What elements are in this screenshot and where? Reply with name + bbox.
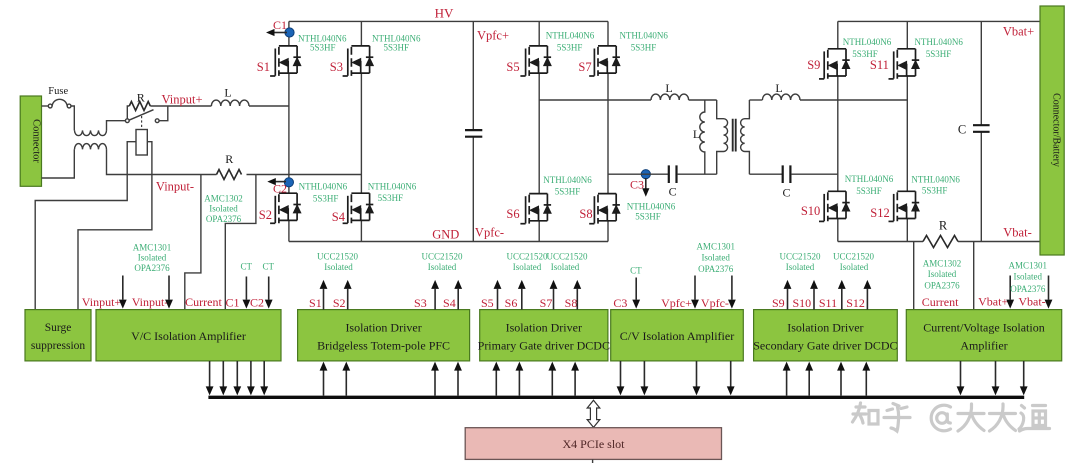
wire DCDC primary top (S5/S6 mid to transformer) <box>539 99 651 101</box>
svg-text:Fuse: Fuse <box>48 86 68 97</box>
wire S10 gate drive arrow <box>813 289 815 310</box>
wire S4 gate drive arrow <box>457 289 459 310</box>
svg-text:OPA2376: OPA2376 <box>134 263 170 273</box>
svg-text:S4: S4 <box>332 210 346 224</box>
capacitor C output (battery side) <box>980 21 982 241</box>
svg-text:Current/Voltage Isolation: Current/Voltage Isolation <box>923 321 1044 335</box>
svg-text:Isolated: Isolated <box>701 253 730 263</box>
svg-text:OPA2376: OPA2376 <box>206 214 242 224</box>
wire fuse to choke <box>71 106 74 130</box>
wire S6 gate drive arrow <box>521 289 523 310</box>
svg-text:5S3HF: 5S3HF <box>856 186 882 196</box>
inductor common-mode choke bottom winding <box>75 144 107 150</box>
svg-text:AMC1302: AMC1302 <box>204 194 243 204</box>
svg-text:NTHL040N6: NTHL040N6 <box>627 202 676 212</box>
svg-text:S3: S3 <box>330 60 343 74</box>
wire Vinput+ arrow into amplifier <box>122 276 124 300</box>
svg-text:S2: S2 <box>259 208 272 222</box>
svg-text:suppression: suppression <box>31 340 86 352</box>
svg-text:Isolated: Isolated <box>786 262 815 272</box>
svg-text:C: C <box>782 186 790 200</box>
wire GND rail <box>289 241 608 243</box>
svg-text:5S3HF: 5S3HF <box>635 212 661 222</box>
wire battery amplifier to bus arrows <box>961 361 1024 387</box>
svg-text:S1: S1 <box>257 60 270 74</box>
svg-text:Isolated: Isolated <box>840 262 869 272</box>
svg-text:R: R <box>137 91 145 105</box>
wire Vinput+ line <box>150 105 211 107</box>
wire S5/S6 leg midpoint <box>538 73 540 194</box>
transistor S10 <box>819 191 850 221</box>
svg-text:5S3HF: 5S3HF <box>922 185 948 195</box>
svg-text:Isolated: Isolated <box>513 262 542 272</box>
wire S1 drain <box>288 21 290 46</box>
svg-text:C2: C2 <box>250 296 264 310</box>
inductor common-mode choke top winding <box>75 130 107 135</box>
svg-text:C: C <box>958 123 966 137</box>
wire Vinput- arrow into amplifier <box>168 276 170 300</box>
relay coil K1 <box>141 116 143 130</box>
wire Vbat- bottom rail right part <box>958 241 1040 243</box>
svg-text:Vbat-: Vbat- <box>1018 295 1045 309</box>
wire S11 gate drive arrow <box>841 289 843 310</box>
svg-text:CT: CT <box>630 266 642 276</box>
svg-text:C: C <box>669 185 677 199</box>
wire choke to Vinput- line <box>107 149 217 174</box>
svg-text:UCC21520: UCC21520 <box>506 252 548 262</box>
svg-text:5S3HF: 5S3HF <box>313 193 339 203</box>
wire S2 source <box>288 220 290 241</box>
svg-text:UCC21520: UCC21520 <box>421 252 463 262</box>
svg-text:5S3HF: 5S3HF <box>384 43 410 53</box>
wire connector low terminal to choke <box>42 149 75 178</box>
svg-text:AMC1301: AMC1301 <box>696 242 735 252</box>
svg-text:5S3HF: 5S3HF <box>310 43 336 53</box>
wire S3 drain <box>360 21 362 46</box>
wire PCIe stub <box>592 459 594 463</box>
capacitor DC-link (Vpfc) <box>472 21 474 241</box>
transistor S4 <box>343 193 374 223</box>
svg-text:AMC1301: AMC1301 <box>133 243 172 253</box>
svg-text:Bridgeless Totem-pole PFC: Bridgeless Totem-pole PFC <box>317 339 450 353</box>
svg-text:CT: CT <box>263 262 275 272</box>
wire Vinput- to S3/S4 midpoint <box>247 174 362 176</box>
svg-text:NTHL040N6: NTHL040N6 <box>843 37 892 47</box>
svg-text:S11: S11 <box>819 296 837 310</box>
svg-text:NTHL040N6: NTHL040N6 <box>619 30 668 40</box>
wire S1 gate drive arrow <box>323 289 325 310</box>
svg-text:S2: S2 <box>333 296 346 310</box>
transistor S11 <box>889 49 920 79</box>
svg-text:Vbat+: Vbat+ <box>978 295 1008 309</box>
wire S12 source <box>906 219 908 242</box>
svg-text:Vpfc-: Vpfc- <box>701 296 729 310</box>
transistor S6 <box>520 194 551 224</box>
svg-text:Connector: Connector <box>31 119 42 163</box>
svg-text:Vinput+: Vinput+ <box>161 93 202 107</box>
node C1 current sense dot <box>285 28 294 37</box>
wire S5 drain <box>538 21 540 46</box>
connector Battery (green box) <box>1040 6 1064 255</box>
wire L to S1/S2 midpoint <box>249 105 289 107</box>
wire S11 drain <box>906 21 908 48</box>
transformer T1 core <box>733 119 736 152</box>
node C2 current sense dot <box>284 178 293 187</box>
wire S11/S12 leg midpoint <box>906 76 908 191</box>
wire S3/S4 leg midpoint <box>360 73 362 193</box>
wire HV rail <box>289 20 608 22</box>
svg-text:Isolated: Isolated <box>324 262 353 272</box>
svg-text:S9: S9 <box>772 296 785 310</box>
wire battery current sense to amplifier <box>913 242 915 310</box>
capacitor C resonant primary <box>669 165 677 183</box>
svg-text:Isolated: Isolated <box>209 204 238 214</box>
wire relay coil drive left <box>35 142 136 310</box>
svg-text:Isolation Driver: Isolation Driver <box>506 321 582 335</box>
svg-text:S6: S6 <box>505 296 518 310</box>
svg-text:S6: S6 <box>506 207 519 221</box>
svg-text:L: L <box>775 81 782 95</box>
svg-text:NTHL040N6: NTHL040N6 <box>845 174 894 184</box>
wire from connector to fuse <box>42 105 49 107</box>
svg-text:Vbat-: Vbat- <box>1003 226 1031 240</box>
transistor S8 <box>589 194 620 224</box>
wire S9 gate drive arrow <box>787 289 789 310</box>
svg-text:S7: S7 <box>540 296 553 310</box>
fuse F1 <box>48 104 52 108</box>
switch relay contact <box>125 119 129 123</box>
wire S10 source <box>837 219 839 242</box>
block Current/Voltage Isolation Amplifier <box>906 310 1061 361</box>
svg-text:OPA2376: OPA2376 <box>924 281 960 291</box>
wire V/C amplifier to bus arrows <box>210 361 265 387</box>
svg-text:AMC1301: AMC1301 <box>1009 261 1048 271</box>
wire S5 gate drive arrow <box>497 289 499 310</box>
wire bus to PFC driver arrows <box>324 371 459 396</box>
wire S9/S10 leg midpoint <box>837 76 839 191</box>
wire S7 gate drive arrow <box>553 289 555 310</box>
wire S6 source <box>538 221 540 242</box>
wire C/V amplifier to bus arrows <box>621 361 731 387</box>
svg-text:Vinput+: Vinput+ <box>82 295 122 309</box>
svg-text:Isolation Driver: Isolation Driver <box>345 321 421 335</box>
svg-text:Current: Current <box>185 295 222 309</box>
svg-text:S7: S7 <box>578 60 591 74</box>
block Isolation Driver Secondary Gate driver DCDC <box>754 310 898 361</box>
wire Vpfc- arrow into amplifier <box>731 276 733 300</box>
svg-text:L: L <box>224 86 231 100</box>
wire CT1 arrow into amplifier <box>245 277 247 300</box>
svg-text:NTHL040N6: NTHL040N6 <box>911 175 960 185</box>
svg-text:UCC21520: UCC21520 <box>779 252 821 262</box>
resistor R input sense <box>217 170 242 180</box>
svg-text:Current: Current <box>922 295 959 309</box>
svg-text:OPA2376: OPA2376 <box>698 264 734 274</box>
svg-text:5S3HF: 5S3HF <box>926 49 952 59</box>
svg-text:R: R <box>225 152 233 166</box>
svg-text:S9: S9 <box>807 58 820 72</box>
svg-text:C1: C1 <box>273 18 287 32</box>
svg-text:Connector/Battery: Connector/Battery <box>1051 93 1062 167</box>
transistor S2 <box>270 193 301 223</box>
svg-text:5S3HF: 5S3HF <box>555 187 581 197</box>
svg-text:Vpfc-: Vpfc- <box>475 226 504 240</box>
svg-text:S10: S10 <box>801 204 820 218</box>
inductor L resonant primary <box>651 94 689 100</box>
svg-text:V/C Isolation Amplifier: V/C Isolation Amplifier <box>131 329 246 343</box>
transformer T1 secondary winding <box>741 100 750 174</box>
svg-text:5S3HF: 5S3HF <box>631 43 657 53</box>
wire choke to relay contact <box>107 121 126 131</box>
block V/C Isolation Amplifier <box>96 310 281 361</box>
wire battery voltage sense to amplifier <box>973 242 975 310</box>
inductor L magnetizing <box>700 100 705 174</box>
svg-text:R: R <box>939 219 948 233</box>
svg-text:S12: S12 <box>846 296 865 310</box>
transistor S3 <box>343 46 374 76</box>
wire S12 gate drive arrow <box>866 289 868 310</box>
wire Vbat- arrow into amplifier <box>1048 276 1050 300</box>
svg-text:X4 PCIe slot: X4 PCIe slot <box>562 437 625 451</box>
node C3 current sense dot <box>641 170 650 179</box>
wire bus to primary driver arrows <box>496 371 575 396</box>
svg-text:S5: S5 <box>481 296 494 310</box>
svg-text:Isolated: Isolated <box>928 269 957 279</box>
wire Vpfc+ arrow into amplifier <box>694 276 696 300</box>
svg-text:CT: CT <box>240 262 252 272</box>
capacitor C resonant secondary <box>783 165 791 183</box>
wire S3 gate drive arrow <box>434 289 436 310</box>
wire C3 arrow into amplifier <box>635 278 637 300</box>
block X4 PCIe slot <box>465 428 721 460</box>
wire CT2 arrow into amplifier <box>268 277 270 300</box>
svg-text:NTHL040N6: NTHL040N6 <box>546 30 595 40</box>
svg-text:S4: S4 <box>443 296 456 310</box>
transformer T1 primary winding <box>717 100 728 174</box>
wire Vbat- bottom rail left part <box>838 241 923 243</box>
svg-text:Surge: Surge <box>45 322 72 334</box>
transistor S1 <box>270 46 301 76</box>
svg-text:AMC1302: AMC1302 <box>923 259 962 269</box>
wire L to S11/S12 midpoint <box>800 99 907 101</box>
svg-text:Primary Gate driver DCDC: Primary Gate driver DCDC <box>478 339 610 353</box>
svg-text:UCC21520: UCC21520 <box>317 252 359 262</box>
svg-text:Vinput-: Vinput- <box>156 180 194 194</box>
inductor L PFC boost <box>211 100 249 106</box>
svg-text:UCC21520: UCC21520 <box>546 252 588 262</box>
transistor S12 <box>889 191 920 221</box>
svg-text:S1: S1 <box>309 296 322 310</box>
svg-text:5S3HF: 5S3HF <box>557 43 583 53</box>
block Isolation Driver Bridgeless Totem-pole PFC <box>298 310 470 361</box>
wire S7/S8 leg midpoint <box>607 73 609 194</box>
svg-text:NTHL040N6: NTHL040N6 <box>299 182 348 192</box>
svg-text:Isolated: Isolated <box>1014 272 1043 282</box>
svg-text:Secondary Gate driver DCDC: Secondary Gate driver DCDC <box>753 339 897 353</box>
block Surge suppression <box>25 310 91 361</box>
svg-text:NTHL040N6: NTHL040N6 <box>914 37 963 47</box>
wire S8 gate drive arrow <box>576 289 578 310</box>
svg-text:HV: HV <box>435 6 454 21</box>
svg-text:C/V Isolation Amplifier: C/V Isolation Amplifier <box>620 329 734 343</box>
svg-text:NTHL040N6: NTHL040N6 <box>368 181 417 191</box>
svg-text:S5: S5 <box>506 60 519 74</box>
svg-text:L: L <box>665 81 672 95</box>
svg-text:Vpfc+: Vpfc+ <box>477 29 509 43</box>
wire S7 drain <box>607 21 609 46</box>
wire Vbat+ arrow into amplifier <box>1009 276 1011 300</box>
resistor R inrush (parallel with relay) <box>127 106 129 119</box>
wire bus to secondary driver arrows <box>787 371 867 396</box>
svg-text:C2: C2 <box>273 182 287 196</box>
transistor S7 <box>589 46 620 76</box>
wire S9 drain <box>837 21 839 48</box>
wire S2 gate drive arrow <box>347 289 349 310</box>
inductor L resonant secondary <box>762 94 800 100</box>
svg-text:C3: C3 <box>613 296 627 310</box>
svg-text:S8: S8 <box>579 207 592 221</box>
svg-text:S8: S8 <box>565 296 578 310</box>
svg-text:UCC21520: UCC21520 <box>833 252 875 262</box>
svg-text:S11: S11 <box>870 58 889 72</box>
transistor S5 <box>520 46 551 76</box>
wire secondary top to L <box>749 99 762 101</box>
svg-text:Vbat+: Vbat+ <box>1003 25 1034 39</box>
wire C1 sense tap to V/C amplifier <box>225 175 256 310</box>
svg-text:5S3HF: 5S3HF <box>378 193 404 203</box>
wire signal bus <box>208 396 1024 399</box>
svg-text:C3: C3 <box>630 178 644 192</box>
block Isolation Driver Primary Gate driver DCDC <box>480 310 608 361</box>
wire C3 line (S7/S8 mid to resonant cap) <box>608 173 668 175</box>
wire secondary bottom to C <box>749 173 782 175</box>
svg-text:GND: GND <box>432 228 459 242</box>
wire current sense tap to V/C amplifier <box>185 175 201 310</box>
wire Vbat+ top rail <box>838 20 1040 22</box>
wire S1/S2 leg midpoint <box>288 73 290 193</box>
connector AC input (green box) <box>20 96 41 186</box>
transistor S9 <box>819 49 850 79</box>
wire S8 source <box>607 221 609 242</box>
svg-text:S3: S3 <box>414 296 427 310</box>
svg-text:Vpfc+: Vpfc+ <box>661 296 692 310</box>
svg-text:Vinput-: Vinput- <box>132 295 169 309</box>
resistor R shunt <box>923 236 958 248</box>
svg-text:Isolation Driver: Isolation Driver <box>787 321 863 335</box>
wire PCIe double-headed arrow <box>587 400 600 427</box>
svg-text:Isolated: Isolated <box>138 253 167 263</box>
wire relay coil drive right <box>78 142 152 310</box>
svg-text:C1: C1 <box>225 296 239 310</box>
svg-text:NTHL040N6: NTHL040N6 <box>543 175 592 185</box>
svg-text:Amplifier: Amplifier <box>960 339 1007 353</box>
block C/V Isolation Amplifier <box>611 310 744 361</box>
svg-text:OPA2376: OPA2376 <box>1010 284 1046 294</box>
watermark zhihu <box>853 403 1050 431</box>
svg-text:L: L <box>693 127 700 141</box>
svg-text:Isolated: Isolated <box>551 262 580 272</box>
svg-text:Isolated: Isolated <box>428 262 457 272</box>
svg-text:S10: S10 <box>792 296 811 310</box>
wire S4 source <box>360 220 362 241</box>
svg-text:S12: S12 <box>870 206 889 220</box>
